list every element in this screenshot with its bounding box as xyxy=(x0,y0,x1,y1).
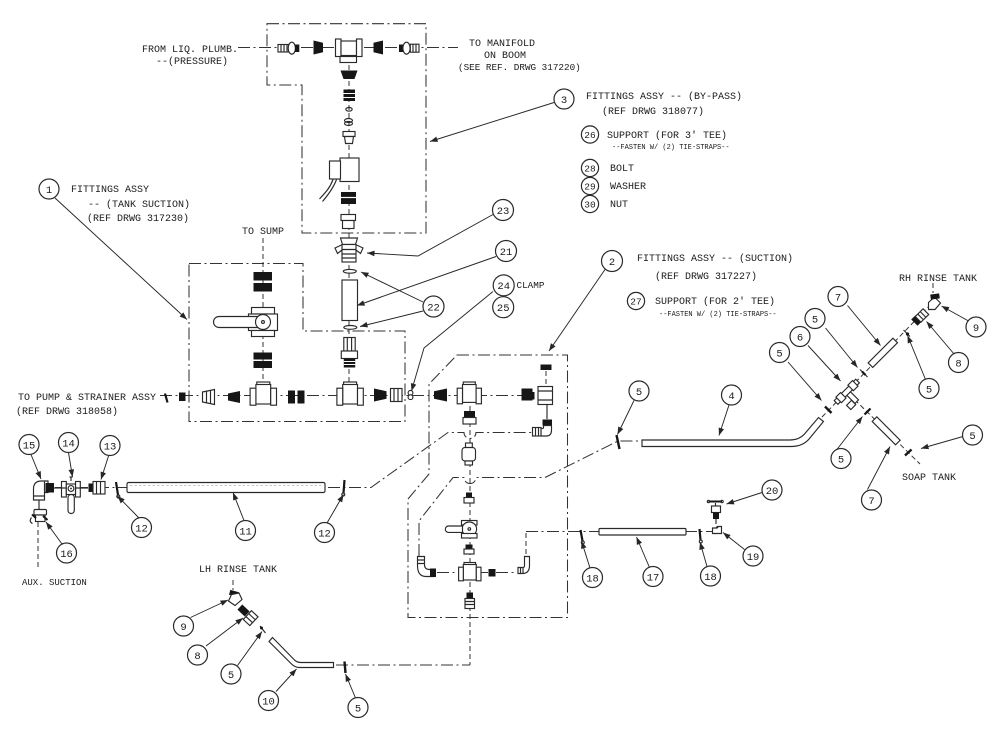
node balloon 5 soap upper xyxy=(831,449,851,469)
leader balloon 9 lh xyxy=(191,600,229,618)
node balloon 18 right xyxy=(701,566,721,586)
svg-text:26: 26 xyxy=(584,130,596,141)
valve (item 14) xyxy=(62,477,89,514)
svg-text:(SEE REF. DRWG 317220): (SEE REF. DRWG 317220) xyxy=(458,62,581,73)
tee (center box upper) xyxy=(457,382,481,404)
wire aux suction dashed line xyxy=(37,522,39,568)
elbow (item 19) xyxy=(713,527,722,534)
tee (left box, on suction line) xyxy=(250,382,276,405)
leader balloon 4 xyxy=(719,405,729,436)
svg-text:10: 10 xyxy=(262,696,275,708)
svg-text:29: 29 xyxy=(584,182,596,193)
hose barb fitting (top right) xyxy=(399,42,419,54)
leader balloon 16 xyxy=(46,522,62,544)
svg-text:20: 20 xyxy=(766,486,779,498)
svg-text:24: 24 xyxy=(497,281,510,293)
node balloon 9 lh xyxy=(174,616,194,636)
svg-text:--(PRESSURE): --(PRESSURE) xyxy=(156,56,228,68)
svg-text:14: 14 xyxy=(62,438,75,450)
clamp band (right of tee) xyxy=(374,41,384,55)
node balloon 15 xyxy=(19,435,39,455)
svg-text:27: 27 xyxy=(630,297,641,308)
svg-text:AUX. SUCTION: AUX. SUCTION xyxy=(22,578,87,588)
svg-text:TO SUMP: TO SUMP xyxy=(242,227,284,238)
small fitting xyxy=(464,545,474,555)
clamp band (dark, lh) xyxy=(237,605,249,617)
node balloon 19 xyxy=(743,546,763,566)
leader balloon 5 to tick above tee xyxy=(826,328,858,368)
wire soap tank branch centerline xyxy=(849,394,920,464)
svg-text:FITTINGS ASSY: FITTINGS ASSY xyxy=(71,185,149,196)
node balloon 24 xyxy=(493,275,514,296)
svg-text:8: 8 xyxy=(194,651,200,663)
tee (by-pass 3in tee) xyxy=(336,39,363,63)
svg-text:2: 2 xyxy=(609,257,615,269)
svg-text:1: 1 xyxy=(46,185,52,197)
node balloon 6 xyxy=(790,327,810,347)
node balloon 18 left xyxy=(583,568,603,588)
svg-text:(REF DRWG 318058): (REF DRWG 318058) xyxy=(16,406,118,418)
clamp tick (item 5, soap branch upper) xyxy=(865,409,871,415)
clamp band xyxy=(341,192,356,204)
clamp tick (item 18 right) xyxy=(699,529,702,543)
svg-text:15: 15 xyxy=(23,440,36,452)
tee (center of tank-suction line, below item 21 stack) xyxy=(337,382,363,405)
svg-text:9: 9 xyxy=(180,622,186,634)
node balloon 12 right xyxy=(315,523,335,543)
svg-text:CLAMP: CLAMP xyxy=(517,280,545,291)
tee (item 6, 2in tee) xyxy=(840,390,859,409)
tube (item 11) xyxy=(127,483,325,493)
node balloon 16 xyxy=(57,543,77,563)
leader balloon 7 soap xyxy=(868,447,891,490)
wire tube-11 line to elbow route xyxy=(55,433,533,488)
wire tube-17 chain line xyxy=(526,531,713,533)
leader balloon 17 xyxy=(637,537,650,568)
coupler fitting xyxy=(341,215,356,229)
svg-text:8: 8 xyxy=(955,358,961,370)
node balloon 30 xyxy=(581,195,598,212)
fitting (item 8 lh) xyxy=(243,611,258,626)
svg-text:FITTINGS ASSY -- (BY-PASS): FITTINGS ASSY -- (BY-PASS) xyxy=(586,91,742,103)
BOXES xyxy=(189,24,568,618)
clamp tick (item 5, above tee) xyxy=(860,370,868,378)
leader balloon 10 xyxy=(276,669,297,692)
svg-text:19: 19 xyxy=(747,552,760,564)
svg-text:18: 18 xyxy=(586,573,599,585)
svg-text:9: 9 xyxy=(973,323,979,335)
clamp cone (dark, entering center box) xyxy=(434,389,447,402)
svg-text:5: 5 xyxy=(812,314,818,326)
svg-text:21: 21 xyxy=(500,247,513,259)
threaded nipple (dark) xyxy=(344,90,356,102)
elbow (item 9, rh rinse tank) xyxy=(929,293,941,309)
node suction assembly boundary box xyxy=(408,355,568,618)
svg-text:12: 12 xyxy=(135,523,148,535)
o-ring xyxy=(346,108,352,112)
leader balloon 11 xyxy=(233,493,244,521)
clamp cone (dark) xyxy=(228,391,240,403)
node balloon 14 xyxy=(59,433,79,453)
svg-text:(REF DRWG 317230): (REF DRWG 317230) xyxy=(87,213,189,225)
svg-text:RH RINSE TANK: RH RINSE TANK xyxy=(899,274,977,285)
fitting (item 13) xyxy=(89,482,106,495)
leader balloon 15 xyxy=(31,455,41,480)
svg-text:30: 30 xyxy=(584,200,596,211)
o-ring pair xyxy=(345,119,353,123)
fitting (dark, at box left edge) xyxy=(179,393,186,402)
svg-text:FITTINGS ASSY -- (SUCTION): FITTINGS ASSY -- (SUCTION) xyxy=(637,253,793,265)
svg-text:4: 4 xyxy=(728,391,734,403)
LEADERS xyxy=(31,103,970,699)
svg-text:22: 22 xyxy=(427,302,440,314)
leader balloon 6 xyxy=(808,346,841,382)
node tank-suction assembly boundary box xyxy=(189,264,405,422)
svg-text:5: 5 xyxy=(969,431,975,443)
clamp cone (dark, left of 2nd tee) xyxy=(374,389,387,402)
tube (item 17) xyxy=(599,529,686,536)
svg-text:12: 12 xyxy=(318,528,331,540)
node balloon 29 xyxy=(581,177,598,194)
clamp band (left of tee) xyxy=(314,41,324,55)
svg-text:(REF DRWG 318077): (REF DRWG 318077) xyxy=(602,106,704,118)
leader balloon 22 upper xyxy=(361,272,423,302)
fitting below upper tee xyxy=(463,411,476,424)
wire rh rinse tank tick xyxy=(932,283,934,293)
wire main suction horizontal line y=395.5 xyxy=(160,395,536,397)
svg-text:25: 25 xyxy=(497,303,510,315)
tube (item 7, soap tank) xyxy=(872,417,900,445)
threaded adapter stack (items 24/25 area) xyxy=(341,338,357,368)
clamp (item 25, small double ring) xyxy=(408,390,413,399)
pipe cylinder (item 21) xyxy=(342,280,358,321)
node by-pass assembly boundary box xyxy=(267,24,426,233)
solenoid valve body U1 xyxy=(320,158,360,202)
leader balloon 5 rh mid xyxy=(908,336,926,380)
svg-text:7: 7 xyxy=(868,496,874,508)
node balloon 7 soap xyxy=(862,490,882,510)
leader balloon 3 xyxy=(430,103,554,142)
svg-text:18: 18 xyxy=(704,572,717,584)
svg-text:5: 5 xyxy=(838,454,844,466)
node balloon 7 rh xyxy=(828,287,848,307)
leader balloon 19 xyxy=(723,533,745,550)
svg-text:6: 6 xyxy=(797,332,803,344)
svg-text:16: 16 xyxy=(60,549,73,561)
leader balloon 7 rh xyxy=(848,306,881,346)
node balloon 1 xyxy=(39,179,59,199)
leader balloon 22 lower xyxy=(360,311,423,327)
node balloon 5 lh lower xyxy=(348,698,368,718)
wire bottom tee lateral segments xyxy=(437,572,517,574)
node balloon 13 xyxy=(100,436,120,456)
clamp tick (item 5 lh) xyxy=(260,626,266,633)
node balloon 5 near tube 4 xyxy=(629,381,649,401)
leader balloon 18 right xyxy=(700,542,707,567)
clamp tick (item 5, soap branch lower) xyxy=(905,450,912,456)
svg-text:LH RINSE TANK: LH RINSE TANK xyxy=(199,565,277,576)
leader balloon 9 rh xyxy=(942,306,970,322)
node balloon 20 xyxy=(762,480,782,500)
fitting (below bottom tee) xyxy=(465,593,475,609)
ball valve (tank suction, item inside left box) xyxy=(214,272,278,368)
wire lh rinse tank tick xyxy=(232,580,234,590)
leader balloon 21 xyxy=(357,257,496,306)
node balloon 2 xyxy=(602,251,623,272)
wire rinse/soap suction diagonal route xyxy=(419,441,643,556)
svg-text:WASHER: WASHER xyxy=(610,182,646,193)
wire top vertical stack centerline xyxy=(348,57,350,382)
svg-text:SUPPORT (FOR 3' TEE): SUPPORT (FOR 3' TEE) xyxy=(607,130,727,142)
node balloon 17 xyxy=(643,567,663,587)
node balloon 12 left xyxy=(132,518,152,538)
leader balloon 23 xyxy=(367,215,493,257)
small fitting (right of bottom tee) xyxy=(489,569,496,577)
wire center box inner branch elbow riser xyxy=(525,533,527,562)
leader balloon 5 soap upper xyxy=(837,417,863,451)
leader balloon 8 lh xyxy=(206,618,243,646)
elbow (item 15, aux suction) xyxy=(34,481,49,500)
svg-text:17: 17 xyxy=(647,572,660,584)
node balloon 27 xyxy=(627,292,644,309)
elbow (center box bottom left) xyxy=(418,557,437,578)
node balloon 5 lh upper xyxy=(221,664,241,684)
wire top horizontal pressure line xyxy=(238,47,458,49)
leader balloon 13 xyxy=(101,456,109,480)
svg-text:5: 5 xyxy=(355,703,361,715)
svg-text:7: 7 xyxy=(835,292,841,304)
wire center-box vertical centerline xyxy=(469,406,471,665)
small fitting xyxy=(464,493,474,504)
tee (center box bottom) xyxy=(459,563,481,581)
leader balloon 1 xyxy=(55,198,187,320)
washer (item 22 lower) xyxy=(344,326,357,330)
leader balloon 2 xyxy=(549,270,605,352)
node balloon 28 xyxy=(581,159,598,176)
CHAINLINES xyxy=(38,48,933,666)
hose mender fitting xyxy=(203,390,215,405)
leader balloon 24/25 xyxy=(412,292,494,392)
svg-text:FROM LIQ. PLUMB.: FROM LIQ. PLUMB. xyxy=(142,45,238,56)
cup fitting xyxy=(343,132,355,144)
leader balloon 5 soap right xyxy=(921,437,963,449)
node balloon 5 below 6 xyxy=(770,343,790,363)
clamp band + fitting (items 8 area, rh) xyxy=(911,315,922,326)
node balloon 23 xyxy=(493,200,514,221)
clamp tick (item 5, left of tube 4) xyxy=(617,435,620,449)
node balloon 22 xyxy=(423,296,444,317)
node balloon 21 xyxy=(496,241,517,262)
svg-text:TO PUMP & STRAINER ASSY: TO PUMP & STRAINER ASSY xyxy=(18,393,156,404)
washer (item 22 upper) xyxy=(343,269,356,273)
node balloon 9 rh xyxy=(966,317,986,337)
node balloon 5 soap right xyxy=(963,425,983,445)
leader balloon 5 to tee lower tick xyxy=(788,362,822,401)
svg-text:(REF DRWG 317227): (REF DRWG 317227) xyxy=(655,271,757,283)
svg-text:28: 28 xyxy=(584,164,596,175)
hose barb fitting (top left) xyxy=(278,42,299,54)
clamp tick (left of box, on suction line) xyxy=(165,394,168,403)
svg-text:BOLT: BOLT xyxy=(610,164,634,175)
node balloon 8 lh xyxy=(188,645,208,665)
node balloon 10 xyxy=(259,691,279,711)
node balloon 8 rh xyxy=(949,353,969,373)
flange (below tee, dark) xyxy=(341,71,358,80)
svg-text:--FASTEN W/ (2) TIE-STRAPS--: --FASTEN W/ (2) TIE-STRAPS-- xyxy=(612,144,730,152)
svg-text:ON BOOM: ON BOOM xyxy=(484,51,526,62)
wire rh diagonal centerline xyxy=(822,303,932,417)
node balloon 25 xyxy=(493,297,514,318)
valve assembly (center box right) xyxy=(530,365,553,437)
clamp tick (item 12 left) xyxy=(116,482,120,498)
clamp band (dark) xyxy=(522,389,533,401)
tube (item 4, soap/rinse suction) xyxy=(642,418,824,447)
leader balloon 12 left xyxy=(118,496,140,518)
svg-text:TO MANIFOLD: TO MANIFOLD xyxy=(469,39,535,50)
svg-text:5: 5 xyxy=(926,384,932,396)
leader balloon 20 xyxy=(727,493,763,505)
cap (item 16) xyxy=(30,500,47,524)
svg-text:--FASTEN W/ (2) TIE-STRAPS--: --FASTEN W/ (2) TIE-STRAPS-- xyxy=(659,311,777,319)
clamp tick (item 5, above tube 7) xyxy=(904,330,911,337)
leader balloon 5 near tube 4 left xyxy=(618,401,635,435)
leader balloon 18 left xyxy=(582,541,591,568)
svg-text:5: 5 xyxy=(636,387,642,399)
svg-text:SUPPORT (FOR 2' TEE): SUPPORT (FOR 2' TEE) xyxy=(655,296,775,308)
svg-text:5: 5 xyxy=(776,348,782,360)
svg-text:NUT: NUT xyxy=(610,200,628,211)
reducer fitting (bottle) xyxy=(462,443,476,465)
wire to-sump vertical centerline xyxy=(262,238,264,382)
node balloon 11 xyxy=(236,521,256,541)
clamp tick (item 18 left) xyxy=(581,530,585,544)
clamp tick (item 12 right) xyxy=(342,480,345,496)
node balloon 5 rh mid xyxy=(919,379,939,399)
node balloon 26 xyxy=(581,126,598,143)
svg-text:SOAP TANK: SOAP TANK xyxy=(902,473,956,484)
node balloon 5 above 6 xyxy=(805,309,825,329)
ball valve (center box, small) xyxy=(445,521,477,539)
clamp tick (item 5, right of tube 10) xyxy=(345,662,346,674)
leader balloon 5 lh upper xyxy=(238,632,263,666)
valve (item 20) xyxy=(707,500,723,524)
clamp band (item 15 right, dark) xyxy=(46,483,55,493)
svg-text:-- (TANK SUCTION): -- (TANK SUCTION) xyxy=(88,199,190,211)
wire lh-rinse horizontal chain to center box xyxy=(336,664,470,666)
leader balloon 14 xyxy=(69,453,73,478)
elbow (lh rinse tank top) xyxy=(229,590,243,606)
svg-text:3: 3 xyxy=(561,95,567,107)
elbow (center box bottom right, to riser) xyxy=(518,557,530,574)
tube (item 7, rh rinse) xyxy=(868,338,897,367)
node balloon 4 xyxy=(722,385,742,405)
clamp tick (item 5, on diagonal above tube 4) xyxy=(825,407,832,414)
svg-text:13: 13 xyxy=(104,441,117,453)
svg-text:5: 5 xyxy=(228,670,234,682)
svg-text:11: 11 xyxy=(239,526,252,538)
leader balloon 5 lh lower xyxy=(346,674,356,698)
leader balloon 12 right xyxy=(327,495,344,524)
hose mender xyxy=(391,389,403,402)
node balloon 3 xyxy=(554,89,574,109)
tube (item 10) xyxy=(269,638,334,668)
cam-lock clamp (item 23) xyxy=(335,238,363,262)
svg-text:23: 23 xyxy=(497,206,510,218)
clamp cone pair (dark, between tees) xyxy=(288,391,305,404)
leader balloon 8 rh xyxy=(927,322,955,355)
